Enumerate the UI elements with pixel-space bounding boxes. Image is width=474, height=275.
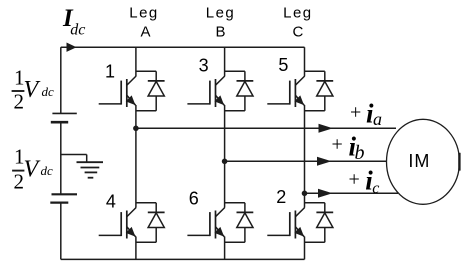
leg C middle wire (304, 105, 306, 208)
arrow ib (317, 157, 332, 166)
bottom DC bus rail (61, 258, 305, 260)
diode D3 (225, 71, 254, 111)
label Idc (62, 5, 85, 39)
svg-text:2: 2 (14, 90, 25, 114)
leg A upper wire from top rail (135, 47, 137, 76)
svg-text:5: 5 (278, 55, 288, 75)
svg-text:C: C (292, 24, 303, 41)
leg C upper wire from top rail (304, 47, 306, 76)
label + ic (349, 166, 380, 197)
svg-text:V: V (24, 77, 41, 103)
label + ia (350, 98, 382, 129)
svg-text:3: 3 (199, 56, 209, 76)
svg-text:1: 1 (105, 62, 115, 82)
node C junction dot (302, 191, 308, 197)
leg B lower wire to bottom rail (224, 237, 226, 260)
leg C lower wire to bottom rail (304, 237, 306, 260)
svg-text:dc: dc (41, 163, 54, 178)
svg-text:dc: dc (42, 84, 55, 99)
label Leg A (129, 4, 159, 40)
svg-text:B: B (215, 24, 225, 41)
svg-text:+: + (349, 168, 360, 190)
diode D2 (305, 203, 334, 243)
svg-text:V: V (24, 156, 41, 182)
node A junction dot (133, 126, 139, 132)
left DC rail lower segment (60, 203, 62, 260)
svg-text:c: c (372, 180, 379, 197)
ground (61, 155, 103, 178)
left DC rail upper segment (60, 47, 62, 113)
leg B middle wire (224, 105, 226, 208)
svg-text:Leg: Leg (283, 4, 313, 21)
phase b output wire (225, 160, 388, 162)
svg-text:b: b (355, 142, 365, 164)
label Leg B (206, 4, 236, 40)
diode D4 (136, 203, 165, 243)
leg A middle wire (135, 105, 137, 208)
battery B1 (upper half DC link) (51, 113, 77, 122)
IGBT Q3 (187, 76, 224, 107)
svg-text:dc: dc (70, 22, 85, 39)
svg-text:+: + (332, 134, 343, 156)
svg-text:2: 2 (14, 169, 25, 193)
svg-text:a: a (373, 109, 382, 129)
svg-text:A: A (140, 24, 150, 41)
svg-text:2: 2 (276, 187, 286, 207)
diode D1 (136, 71, 165, 111)
svg-text:6: 6 (189, 189, 199, 209)
IGBT Q1 (99, 76, 136, 107)
label 1/2 Vdc upper (12, 65, 54, 113)
leg A lower wire to bottom rail (135, 237, 137, 260)
motor IM circle (387, 119, 460, 204)
arrow ia (319, 124, 334, 133)
battery B2 (lower half DC link) (50, 194, 77, 202)
arrow ic (318, 189, 333, 198)
svg-text:Leg: Leg (206, 4, 236, 21)
IGBT Q6 (187, 208, 224, 239)
label 1/2 Vdc lower (12, 145, 53, 194)
phase c output wire (305, 192, 399, 194)
IGBT Q2 (267, 208, 304, 239)
top DC bus rail (61, 46, 305, 48)
label Leg C (283, 4, 313, 40)
diode D5 (305, 71, 334, 111)
svg-text:IM: IM (408, 151, 430, 171)
phase a output wire (136, 127, 396, 129)
left DC rail middle segment (60, 122, 62, 194)
label + ib (332, 132, 365, 164)
IGBT Q4 (99, 208, 136, 239)
svg-text:Leg: Leg (129, 4, 159, 21)
IGBT Q5 (267, 76, 304, 107)
leg B upper wire from top rail (224, 47, 226, 76)
Idc arrow (67, 43, 77, 52)
motor right edge thick segment (458, 153, 460, 171)
node B junction dot (222, 159, 228, 165)
svg-text:+: + (350, 101, 361, 123)
diode D6 (225, 203, 254, 243)
svg-text:4: 4 (106, 192, 116, 212)
